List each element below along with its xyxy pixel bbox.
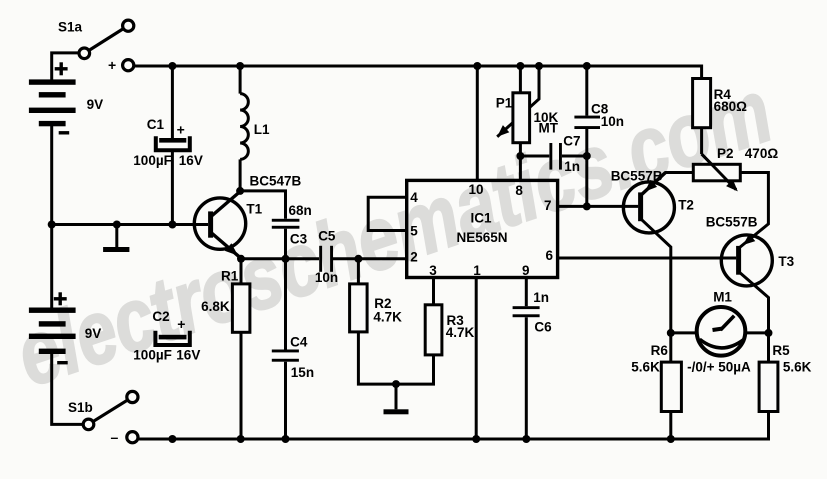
svg-text:NE565N: NE565N: [456, 230, 507, 245]
resistor R2: [350, 284, 403, 332]
svg-text:470Ω: 470Ω: [745, 146, 779, 161]
svg-text:9V: 9V: [87, 97, 104, 112]
wire C6 to bottom rail: [525, 317, 528, 439]
wire R1 top lead: [240, 259, 243, 284]
node mid rail C1 C2: [168, 221, 176, 229]
svg-text:68n: 68n: [289, 203, 312, 218]
wire L1 bottom lead to T1 collector node: [239, 159, 242, 191]
svg-text:M1: M1: [713, 289, 732, 304]
wire P1 top lead: [519, 66, 522, 93]
svg-text:2: 2: [410, 250, 418, 265]
wire C3 bottom to node: [284, 229, 287, 259]
svg-text:P2: P2: [717, 146, 734, 161]
capacitor C3: [272, 203, 312, 246]
svg-text:5.6K: 5.6K: [783, 359, 812, 374]
wire top rail: [135, 66, 702, 79]
svg-text:6.8K: 6.8K: [201, 299, 230, 314]
svg-text:C3: C3: [290, 231, 308, 246]
transistor T3 BC557B: [706, 215, 795, 286]
node M1 right: [765, 329, 773, 337]
node M1 left: [667, 329, 675, 337]
node T1 collector: [236, 187, 244, 195]
node ground R2 R3: [392, 380, 400, 388]
wire battery center tap stub: [115, 225, 118, 248]
node top rail P1: [516, 62, 524, 70]
node bottom rail R6: [667, 435, 675, 443]
svg-text:100µF: 100µF: [133, 153, 172, 168]
svg-text:1n: 1n: [533, 290, 549, 305]
wire C1 branch from top rail: [171, 66, 174, 138]
node top rail pin10: [473, 62, 481, 70]
inductor L1: [240, 94, 270, 160]
node mid rail battery: [48, 221, 56, 229]
battery B2 9V: [29, 292, 76, 364]
wire C4 to bottom rail: [284, 362, 287, 439]
capacitor C2: [133, 309, 200, 363]
svg-text:5: 5: [410, 224, 418, 239]
svg-text:680Ω: 680Ω: [714, 99, 748, 114]
svg-text:4.7K: 4.7K: [373, 309, 402, 324]
node bottom rail C2: [168, 435, 176, 443]
wire IC pin 10 to top rail: [476, 66, 479, 180]
svg-text:1: 1: [473, 263, 481, 278]
capacitor C6: [513, 290, 553, 334]
transistor T2 BC557B: [611, 168, 694, 233]
node bottom rail C4: [282, 435, 290, 443]
wire meter M1 left lead: [671, 331, 697, 334]
node C8 pin7: [583, 202, 591, 210]
wire R4 bottom to P2 wiper entry: [700, 128, 703, 154]
svg-text:9: 9: [522, 263, 530, 278]
wire mid rail to B2 positive: [50, 225, 53, 309]
wire T3 collector to R5 node: [740, 273, 769, 333]
wire battery B1 positive to switch S1a: [52, 53, 79, 84]
svg-text:-/0/+ 50µA: -/0/+ 50µA: [687, 359, 751, 374]
resistor R6: [631, 343, 681, 411]
wire R6 top lead: [669, 333, 672, 362]
svg-text:100µF: 100µF: [133, 348, 172, 363]
wire IC pin 7 to T2 base: [558, 205, 639, 208]
wire T2 collector to meter node: [642, 220, 671, 333]
wire IC pin 3 to R3: [432, 278, 435, 305]
svg-text:16V: 16V: [179, 153, 203, 168]
svg-text:T3: T3: [778, 254, 794, 269]
svg-text:MT: MT: [539, 121, 559, 136]
wire C8 top lead: [585, 66, 588, 116]
ground battery center tap: [103, 247, 129, 252]
IC U1 IC1 NE565N: [407, 180, 558, 277]
svg-text:BC557B: BC557B: [706, 215, 758, 230]
wire C7 left lead: [520, 155, 549, 158]
svg-text:BC557B: BC557B: [611, 168, 663, 183]
svg-text:1n: 1n: [564, 159, 580, 174]
wire B1 negative down to mid rail: [50, 124, 53, 225]
svg-text:C6: C6: [534, 319, 552, 334]
capacitor C5: [315, 228, 338, 284]
svg-text:4: 4: [410, 190, 418, 205]
node C5 R2: [354, 255, 362, 263]
wire C7 right lead: [562, 155, 587, 158]
wire meter M1 right lead: [745, 331, 768, 334]
potentiometer P2: [693, 146, 778, 191]
transistor T1 BC547B: [194, 174, 301, 259]
svg-text:+: +: [108, 57, 116, 73]
svg-text:BC547B: BC547B: [250, 174, 302, 189]
wire bottom rail: [139, 412, 769, 440]
svg-text:10: 10: [468, 182, 483, 197]
wire P2 wiper diagonal: [702, 154, 736, 190]
wire C5 to IC pin 2: [333, 257, 407, 260]
svg-text:R5: R5: [772, 343, 790, 358]
capacitor C1: [133, 117, 203, 168]
node minus terminal: [111, 429, 139, 445]
wire R6 bottom lead: [669, 412, 672, 440]
svg-text:7: 7: [544, 198, 552, 213]
switch S1a: [79, 20, 134, 59]
resistor R1: [201, 268, 250, 332]
node T1 emitter: [237, 255, 245, 263]
node top rail P1 wiper: [535, 62, 543, 70]
svg-text:S1b: S1b: [68, 400, 93, 415]
wire P1 bottom to IC pin 8: [519, 143, 522, 181]
svg-text:C1: C1: [147, 117, 165, 132]
svg-text:P1: P1: [496, 96, 513, 111]
wire C8 bottom through C7 node to pin7 line: [585, 129, 588, 206]
svg-text:9V: 9V: [85, 326, 102, 341]
svg-text:T1: T1: [246, 201, 262, 216]
wire R2 top lead: [357, 259, 360, 284]
capacitor C4: [272, 334, 314, 380]
capacitor C7: [549, 134, 580, 174]
node mid rail tap: [113, 221, 121, 229]
wire C1 to mid rail: [171, 151, 174, 225]
wire emitter node to pin 2 line left part: [241, 257, 319, 260]
svg-text:–: –: [111, 429, 119, 445]
node bottom rail R1: [237, 435, 245, 443]
svg-text:8: 8: [515, 183, 523, 198]
wire ground stub below R2 R3: [395, 384, 398, 409]
wire IC pin 9 to C6: [525, 278, 528, 307]
node P1 C7 pin8: [516, 152, 524, 160]
wire R1 bottom lead: [240, 332, 243, 439]
svg-text:C2: C2: [152, 309, 169, 324]
svg-text:3: 3: [429, 263, 437, 278]
wire R5 top lead: [767, 333, 770, 362]
svg-text:IC1: IC1: [470, 211, 492, 226]
wire IC pin 6 to T3 base: [558, 257, 737, 260]
wire mid rail battery junction to T1 base: [52, 223, 208, 226]
node bottom rail pin1: [472, 435, 480, 443]
svg-text:C7: C7: [563, 134, 580, 149]
wire IC pins 4-5 shorting loop: [368, 197, 407, 230]
meter M1: [687, 289, 751, 374]
wire B2 negative to switch S1b: [52, 353, 83, 424]
wire node to C4: [284, 259, 287, 350]
battery B1 9V: [29, 62, 76, 134]
svg-text:C4: C4: [290, 334, 308, 349]
svg-text:10n: 10n: [601, 114, 624, 129]
node bottom rail C6: [522, 435, 530, 443]
svg-text:6: 6: [545, 248, 553, 263]
wire T1 collector node to C3: [240, 191, 285, 219]
svg-text:R1: R1: [221, 268, 239, 283]
potentiometer P1: [496, 93, 559, 143]
svg-text:+: +: [177, 316, 185, 332]
svg-text:S1a: S1a: [58, 19, 83, 34]
node plus terminal: [108, 57, 134, 73]
wire P1 wiper to top rail: [497, 66, 539, 137]
wire P2 right end down to T3 emitter: [740, 173, 768, 248]
svg-text:+: +: [177, 122, 185, 138]
wire L1 top lead: [239, 66, 242, 94]
capacitor C8: [574, 102, 624, 129]
wire P2 left end to T2 emitter: [642, 173, 693, 195]
node top rail L1: [236, 62, 244, 70]
wire R3 bottom lead to ground node: [396, 355, 434, 384]
svg-text:T2: T2: [678, 198, 694, 213]
resistor R3: [425, 305, 474, 355]
svg-text:C5: C5: [318, 228, 336, 243]
wire R2 bottom lead to ground node: [358, 332, 396, 384]
node top rail C1: [168, 62, 176, 70]
node C3 C4: [282, 255, 290, 263]
svg-text:15n: 15n: [291, 365, 314, 380]
node C7 C8: [583, 152, 591, 160]
ground below R2 R3: [384, 409, 409, 414]
switch S1b: [83, 391, 138, 429]
svg-text:R6: R6: [651, 343, 669, 358]
svg-text:5.6K: 5.6K: [631, 359, 660, 374]
svg-text:L1: L1: [254, 122, 270, 137]
svg-text:4.7K: 4.7K: [446, 325, 475, 340]
svg-text:16V: 16V: [176, 348, 200, 363]
resistor R4: [693, 79, 748, 128]
svg-text:10n: 10n: [315, 270, 338, 285]
wire IC pin 1 to bottom rail: [475, 278, 478, 440]
resistor R5: [759, 343, 812, 411]
node top rail C8: [583, 62, 591, 70]
